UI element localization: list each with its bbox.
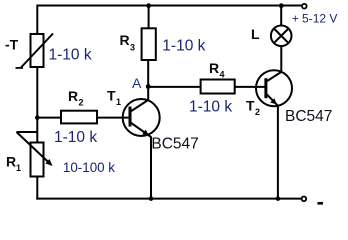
svg-text:T: T: [246, 98, 255, 114]
svg-text:BC547: BC547: [285, 108, 332, 125]
wire R4 to T2 base: [235, 86, 265, 88]
svg-text:R: R: [209, 60, 219, 76]
resistor R3 body: [142, 28, 156, 60]
terminal + top right: [302, 4, 307, 9]
wire R2 left: [37, 117, 61, 119]
svg-text:2: 2: [79, 98, 84, 108]
transistor T1 base bar: [129, 107, 132, 127]
wire R3 bottom to node A: [147, 60, 149, 87]
wire lamp top: [280, 6, 282, 26]
svg-text:1-10 k: 1-10 k: [54, 129, 97, 146]
wire T1 collector to node A: [147, 87, 149, 101]
junction dot bottom rail / T1 emitter: [149, 196, 154, 201]
svg-text:1: 1: [116, 97, 121, 107]
transistor T2 emitter diagonal: [266, 94, 278, 106]
potentiometer R1 arrowhead: [45, 159, 52, 166]
junction dot bottom rail / T2 emitter: [276, 196, 281, 201]
svg-text:1-10 k: 1-10 k: [189, 98, 232, 115]
transistor T1 emitter arrowhead: [142, 130, 149, 136]
svg-text:1-10 k: 1-10 k: [49, 47, 92, 64]
transistor T2 emitter arrowhead: [270, 98, 276, 104]
thermistor -T body: [31, 34, 44, 67]
wire T2 emitter down: [277, 105, 279, 198]
resistor R4 body: [201, 80, 235, 94]
svg-text:10-100 k: 10-100 k: [63, 160, 115, 175]
svg-text:1-10 k: 1-10 k: [162, 38, 205, 55]
minus sign bottom right: [318, 202, 324, 205]
svg-text:3: 3: [130, 43, 135, 53]
potentiometer R1 wiper link: [17, 131, 38, 133]
wire left rail upper: [36, 5, 38, 36]
thermistor -T foot: [16, 67, 24, 69]
potentiometer R1 wiper diagonal: [17, 132, 51, 164]
wire top rail: [37, 5, 301, 7]
svg-text:R: R: [120, 32, 130, 48]
transistor T1 emitter diagonal: [131, 123, 152, 138]
transistor T2 circle: [256, 70, 292, 106]
svg-text:-T: -T: [5, 37, 19, 53]
resistor R2 body: [61, 111, 97, 124]
terminal - bottom right: [302, 197, 307, 202]
svg-text:T: T: [107, 88, 116, 104]
junction dot top rail / R3: [146, 3, 151, 8]
svg-text:R: R: [6, 154, 16, 170]
wire left rail lower: [36, 177, 38, 200]
node A junction dot: [146, 84, 151, 89]
transistor T2 base bar: [264, 78, 267, 98]
wire T1 emitter down: [150, 137, 152, 199]
wire lamp to T2 collector: [280, 46, 282, 72]
transistor T1 collector diagonal: [131, 100, 149, 112]
wire left rail middle: [36, 67, 38, 143]
wire bottom rail: [36, 198, 301, 200]
svg-text:L: L: [251, 26, 260, 42]
potentiometer R1 body: [31, 143, 44, 177]
junction dot left rail / R2: [35, 115, 40, 120]
svg-text:2: 2: [255, 107, 260, 117]
thermistor -T diagonal: [21, 34, 54, 69]
svg-text:4: 4: [220, 70, 225, 80]
transistor T2 collector diagonal: [266, 72, 281, 82]
wire R3 top: [148, 6, 150, 30]
svg-text:1: 1: [16, 163, 21, 173]
svg-text:BC547: BC547: [151, 135, 198, 152]
wire R2 to T1 base: [97, 117, 130, 119]
lamp L circle: [271, 26, 292, 47]
transistor T1 circle: [123, 99, 160, 136]
svg-text:R: R: [68, 88, 78, 104]
svg-text:A: A: [132, 75, 142, 91]
lamp L cross: [274, 29, 289, 44]
junction dot top rail / lamp: [279, 3, 284, 8]
wire node A to R4: [148, 86, 200, 88]
svg-text:+ 5-12 V: + 5-12 V: [292, 12, 338, 26]
